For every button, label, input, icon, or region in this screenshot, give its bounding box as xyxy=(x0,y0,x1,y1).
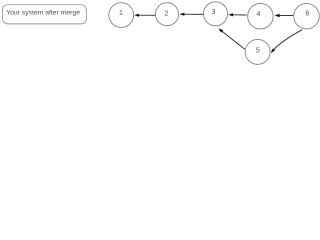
svg-text:3: 3 xyxy=(212,9,216,16)
node 6 xyxy=(294,3,320,29)
node 5 xyxy=(245,39,270,64)
svg-text:2: 2 xyxy=(165,11,169,18)
node 3 xyxy=(204,2,228,26)
node 1 xyxy=(109,3,134,28)
svg-text:5: 5 xyxy=(256,48,260,55)
label box: Your system after merge xyxy=(2,5,86,24)
node 2 xyxy=(155,3,178,26)
arrow 5 to 3 xyxy=(218,28,244,49)
node 4 xyxy=(248,3,274,29)
arrow 4 to 3 xyxy=(228,13,247,16)
svg-text:6: 6 xyxy=(305,11,309,18)
svg-text:1: 1 xyxy=(119,10,123,17)
svg-text:Your system after merge: Your system after merge xyxy=(6,10,80,17)
arrow 2 to 1 xyxy=(134,14,155,17)
svg-text:4: 4 xyxy=(257,11,261,18)
arrow 6 to 5 xyxy=(271,30,302,53)
arrow 3 to 2 xyxy=(180,13,204,16)
arrow 6 to 4 xyxy=(275,14,294,17)
